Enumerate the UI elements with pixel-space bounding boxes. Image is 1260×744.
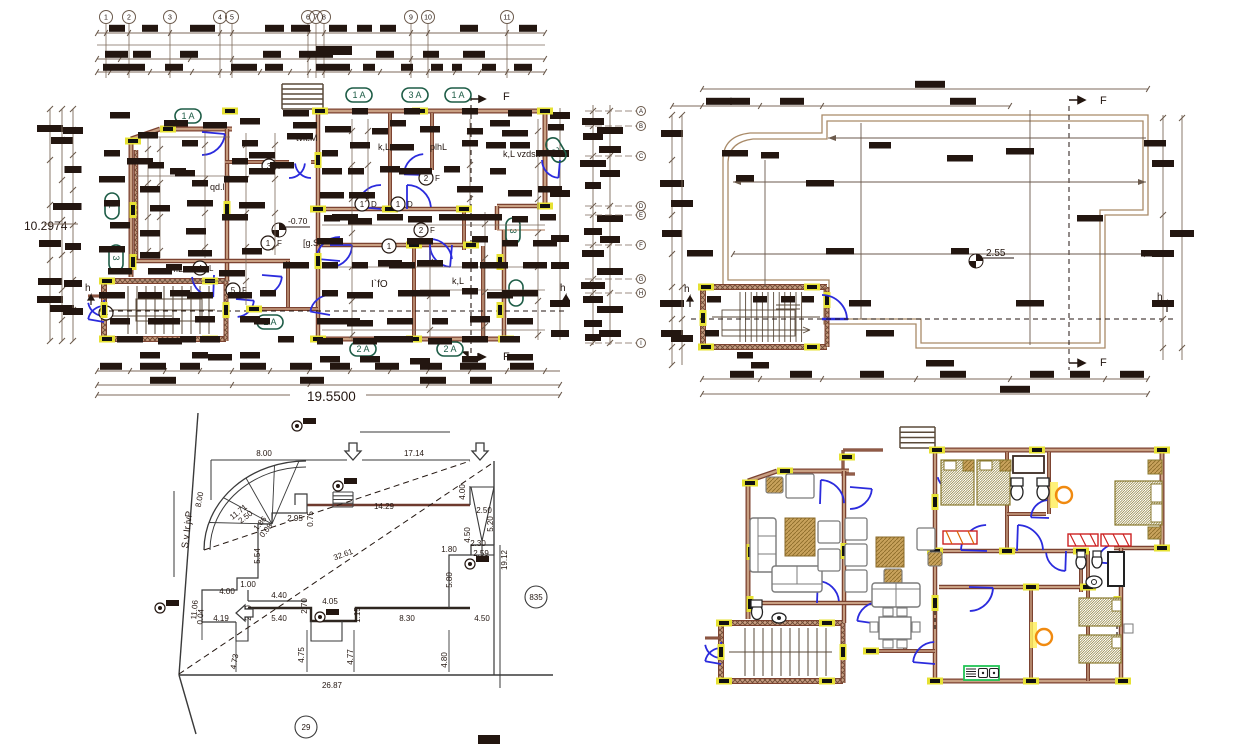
site boundary bottom (179, 674, 553, 676)
carpet centre (876, 537, 904, 567)
svg-text:835: 835 (529, 593, 543, 602)
column marker (99, 336, 115, 343)
door near stairs (236, 299, 254, 317)
column marker (412, 108, 428, 115)
column marker (1080, 584, 1096, 591)
room tag circle 1 D (355, 197, 377, 211)
top dimension chain 3 (95, 64, 547, 75)
grid line 1 (105, 24, 107, 78)
column marker (130, 254, 137, 270)
column marker (716, 678, 732, 685)
site corner fan lines (209, 461, 299, 524)
section line F-F dashed (470, 96, 472, 360)
tag 2A bottom (350, 342, 376, 356)
grid line 11 (506, 24, 508, 78)
column marker (932, 595, 939, 611)
roof top dim chain (670, 98, 1012, 109)
dashed guide line at y 311 (100, 310, 565, 312)
svg-text:5: 5 (230, 15, 234, 22)
q4 door top-centre (938, 472, 959, 492)
side table hatched (766, 477, 783, 493)
svg-text:1: 1 (396, 200, 401, 209)
svg-text:A: A (639, 109, 643, 115)
column marker (1073, 548, 1089, 555)
master bed side table bottom (1148, 527, 1161, 539)
column marker (537, 108, 553, 115)
section: roof terrace plan (top-right) (660, 81, 1194, 397)
stair arrow (112, 315, 172, 317)
hatched stool centre (884, 569, 902, 585)
svg-text:D: D (407, 200, 413, 209)
svg-text:1: 1 (266, 239, 271, 248)
grid line 7 (315, 24, 317, 78)
roof stair treads (712, 292, 820, 342)
column marker (406, 242, 422, 249)
tag 2 right (509, 280, 523, 306)
room tag circle 4 L (193, 261, 214, 275)
right exterior wall lower (502, 230, 507, 339)
bedside hatched square right of bed2 (1000, 460, 1011, 471)
svg-text:2.30: 2.30 (470, 539, 486, 548)
bottom wall right block (318, 337, 508, 342)
q4 right step wall (1114, 546, 1165, 551)
svg-text:h: h (560, 283, 566, 294)
grid bubble 11 (501, 11, 514, 24)
q4 stair top wall (721, 620, 843, 626)
column marker (999, 548, 1015, 555)
column marker (456, 206, 472, 213)
site top left vertical (210, 460, 212, 500)
svg-text:h: h (1157, 292, 1163, 303)
grid line 3 (169, 24, 171, 78)
q4 bottom wall right block (935, 679, 1125, 684)
q4 door spine lower (913, 642, 935, 664)
svg-text:D: D (371, 200, 377, 209)
roof door blue sill (822, 318, 848, 321)
grid bubble 2 (123, 11, 136, 24)
q4 entry arc 2 (705, 648, 722, 664)
q4 hall door left (961, 525, 987, 551)
q4 porch top wall (843, 448, 883, 451)
grid bubble 4 (214, 11, 227, 24)
q4 interior vertical right (1079, 548, 1083, 592)
row bubble D (637, 202, 646, 211)
interior horizontal wall mid (318, 207, 464, 212)
column marker (839, 454, 855, 461)
white gap for text (290, 387, 366, 402)
svg-text:2: 2 (419, 226, 424, 235)
q4 bathroom wall 2 (1047, 452, 1051, 514)
q4 bathroom wall vertical (1005, 452, 1009, 551)
right exterior wall upper (543, 111, 548, 206)
q4 hall door right (1017, 525, 1043, 551)
q4 spine top stub (933, 450, 938, 467)
column marker (716, 620, 732, 627)
hollow arrow down (345, 443, 361, 460)
mark L arrow (462, 352, 484, 360)
tag circle 4 entry (99, 306, 113, 320)
interior wall above stairs (254, 307, 318, 311)
door plhL room (404, 154, 425, 175)
column marker (224, 201, 231, 217)
column marker (498, 336, 514, 343)
entry door arc 2 (88, 306, 105, 322)
grid bubble 7 (310, 11, 323, 24)
svg-text:5.80: 5.80 (445, 572, 454, 588)
svg-text:26.87: 26.87 (322, 681, 343, 690)
armchair top left (786, 474, 814, 498)
row bubble B (637, 122, 646, 131)
column marker (804, 344, 820, 351)
left exterior wall (129, 139, 134, 277)
svg-text:h: h (684, 284, 690, 295)
roof dashed horizontal (691, 318, 1175, 320)
room tag circle 1 F (261, 236, 282, 250)
svg-text:H: H (639, 291, 643, 297)
tag 1A top right (445, 88, 471, 102)
roof outline inner (728, 121, 1143, 343)
svg-text:3 A: 3 A (408, 90, 421, 100)
svg-text:k,L: k,L (378, 142, 390, 152)
grid bubble 9 (405, 11, 418, 24)
utility symbol left (155, 600, 179, 613)
site boundary right 2 (499, 545, 501, 688)
central spine wall (316, 109, 321, 339)
column marker (1114, 644, 1121, 660)
svg-text:4.40: 4.40 (271, 591, 287, 600)
svg-text:2 A: 2 A (356, 344, 369, 354)
column marker (315, 152, 322, 168)
column marker (1154, 545, 1170, 552)
interior wall room plhL (430, 113, 434, 170)
column marker (315, 253, 322, 269)
column marker (927, 678, 943, 685)
column marker (310, 336, 326, 343)
site dashed diagonal long (179, 462, 494, 674)
svg-text:F: F (277, 239, 282, 248)
site dashed diagonal 1 (204, 461, 470, 550)
column marker (202, 336, 218, 343)
grid bubble 1 (100, 11, 113, 24)
tag 2A bottom right (437, 342, 463, 356)
wardrobe red hatch 2 (1101, 534, 1131, 546)
centre chair 2 (845, 544, 867, 566)
door 2F right (430, 245, 452, 267)
q4 interior vertical small (903, 603, 907, 651)
level symbol BM (272, 223, 310, 237)
column marker (700, 310, 707, 326)
svg-text:3: 3 (508, 228, 518, 233)
q4 chamfer wall (748, 471, 777, 481)
stair enclosure right wall (224, 281, 229, 341)
site corner arc inner (210, 467, 306, 550)
row bubble C (637, 152, 646, 161)
column marker (747, 544, 754, 560)
q4 left room door (817, 581, 839, 603)
roof interior dim horizontal 2 (733, 253, 1146, 255)
right dimension blob strip (550, 108, 570, 340)
door mid hall left (357, 185, 381, 209)
svg-text:2: 2 (127, 15, 131, 22)
yellow strip beside bath (1050, 482, 1058, 508)
door left of I`fO (316, 237, 340, 261)
q4 door near stairs (857, 602, 880, 624)
interior vertical wall small (286, 261, 290, 309)
roof stair left wall (700, 287, 706, 349)
svg-text:4.50: 4.50 (474, 614, 490, 623)
svg-text:4.19: 4.19 (213, 614, 229, 623)
stair ladder (333, 492, 353, 507)
grid bubble 10 (422, 11, 435, 24)
door 5 near bottom (310, 295, 330, 315)
column marker (1023, 678, 1039, 685)
svg-text:4.00: 4.00 (219, 587, 235, 596)
armchair pair 2 (818, 549, 840, 571)
roof interior dim horizontal upper (828, 137, 1146, 139)
q4 right exterior wall upper (1160, 450, 1165, 548)
stair enclosure bottom wall (104, 336, 226, 342)
site ramp V feature (471, 487, 494, 555)
svg-text:1: 1 (387, 242, 392, 251)
grid line 4 (219, 24, 221, 78)
svg-text:B: B (639, 124, 643, 130)
site detached line top (360, 431, 450, 433)
grid line 9 (410, 24, 412, 78)
site corner arc outer (204, 461, 306, 550)
interior dimension verticals (145, 119, 541, 340)
column marker (718, 644, 725, 660)
column marker (222, 108, 238, 115)
svg-text:1 A: 1 A (181, 111, 194, 121)
toilet bottom-left (751, 600, 763, 620)
q4 wall rooms lower (1029, 589, 1033, 681)
single bed 1 (hatched) (941, 460, 974, 505)
side table twin beds (1124, 624, 1133, 633)
roof stair bottom wall (703, 344, 827, 350)
door mid hall right (407, 185, 431, 209)
roof stair right wall (825, 287, 830, 347)
interior horizontal wall lower (322, 243, 470, 248)
bottom dimension chain 1 (95, 363, 560, 374)
svg-text:5.40: 5.40 (271, 614, 287, 623)
chamfer corner wall (131, 129, 160, 139)
left block interior vertical wall (225, 129, 230, 281)
site boundary diagonal left (179, 413, 198, 675)
q4 stair bottom wall (721, 678, 843, 684)
grid bubble 6 (302, 11, 315, 24)
partial blob bottom centre (478, 735, 500, 744)
door right vzdsh (542, 160, 560, 178)
tag 1 left (105, 193, 119, 219)
column marker (1023, 584, 1039, 591)
sofa pair lower centre (872, 583, 920, 607)
svg-text:F: F (1100, 95, 1107, 107)
site boundary diagonal continuation (179, 675, 196, 734)
sofa left vertical (3-seat) (750, 518, 776, 572)
washbasin oval bottom-left (772, 613, 786, 623)
door 1F room (262, 275, 282, 295)
tag 2A mid (257, 315, 283, 329)
column marker (497, 254, 504, 270)
column marker (160, 126, 176, 133)
q4 central spine wall (933, 467, 938, 681)
section: site plan (bottom-left) (155, 413, 553, 738)
roof interior dim vertical 2 (1029, 110, 1031, 345)
row bubble G (637, 275, 646, 284)
column marker (932, 494, 939, 510)
column marker (463, 242, 479, 249)
column marker (1154, 447, 1170, 454)
top dimension line 2 (97, 44, 545, 46)
roof F arrow bottom (1069, 360, 1085, 367)
q4 top wall right block (935, 448, 1165, 453)
roof bottom dim overall (700, 386, 1150, 397)
stair enclosure left wall (101, 281, 107, 341)
stair treads (112, 286, 215, 334)
bath sink counter dark rect (1013, 456, 1044, 473)
room tag circle 2 F (419, 171, 440, 185)
row bubble I (637, 339, 646, 348)
svg-text:4.00: 4.00 (458, 484, 467, 500)
column marker (310, 206, 326, 213)
room tag circle 3 F (262, 159, 283, 173)
svg-text:4.05: 4.05 (322, 597, 338, 606)
tag 1A left (175, 109, 201, 123)
interior wall 3F stub (311, 160, 318, 164)
site top edge line 8.00 (211, 459, 347, 461)
q4 stair left wall (718, 623, 724, 683)
svg-text:17.14: 17.14 (404, 449, 425, 458)
row bubble E (637, 211, 646, 220)
column marker (747, 596, 754, 612)
roof right dim chain (1152, 115, 1174, 360)
grid bubble 3 (164, 11, 177, 24)
svg-text:I`fO: I`fO (371, 278, 388, 290)
column marker (698, 284, 714, 291)
door 4lL room (192, 275, 214, 297)
utility symbol near stairs (333, 478, 357, 491)
svg-text:5.20: 5.20 (486, 516, 495, 532)
svg-text:3: 3 (168, 15, 172, 22)
left dimension chain middle (50, 106, 74, 344)
centre chair 3 (845, 570, 867, 592)
column marker (202, 278, 218, 285)
q4 left interior horizontal wall (748, 601, 907, 606)
column marker (929, 447, 945, 454)
q4 lower hall door (969, 587, 993, 611)
svg-text:0.04: 0.04 (195, 608, 205, 625)
interior wall with 3F door (225, 160, 289, 164)
svg-text:8.30: 8.30 (399, 614, 415, 623)
svg-text:2.70: 2.70 (300, 598, 309, 614)
stair ladder (282, 84, 323, 109)
site left survey line (173, 491, 175, 577)
master bed side table top (1148, 460, 1162, 474)
roof bottom dim chain (700, 371, 1150, 382)
q4 porch stub (705, 637, 721, 640)
column marker (863, 648, 879, 655)
roof outline outer (723, 115, 1148, 348)
left block interior horizontal wall (131, 259, 290, 264)
q4 left interior vertical wall (842, 471, 847, 623)
tag 1A top (346, 88, 372, 102)
stair rail mark (150, 320, 164, 324)
svg-text:1: 1 (104, 15, 108, 22)
single bed 2 (hatched) (977, 460, 1010, 505)
q4 dashed opening (934, 604, 936, 632)
section arrow top (471, 96, 485, 102)
section: ground floor plan (top-left) (24, 11, 646, 405)
door below [g.S (330, 245, 352, 267)
svg-text:10.2974: 10.2974 (24, 219, 68, 233)
column marker (1114, 596, 1121, 612)
svg-text:L: L (209, 264, 214, 273)
parcel circle 635 (525, 586, 547, 608)
entry door arc 1 (88, 300, 105, 316)
svg-text:19.5500: 19.5500 (307, 389, 356, 404)
column marker (824, 292, 831, 308)
washbasin circle mid (1086, 576, 1102, 588)
porch wall stub (88, 295, 104, 298)
column marker (406, 336, 422, 343)
column marker (819, 678, 835, 685)
grid line 8 (323, 24, 325, 78)
column marker (804, 284, 820, 291)
column marker (819, 620, 835, 627)
svg-text:5.54: 5.54 (253, 548, 262, 564)
wardrobe red centre (943, 531, 977, 544)
grid line 6 (307, 24, 309, 78)
top wall left block (160, 127, 232, 132)
top wall right block (318, 109, 548, 114)
grid bubble 5 (226, 11, 239, 24)
svg-text:2.50: 2.50 (476, 506, 492, 515)
q4 dashed opening 2 (1116, 618, 1118, 642)
interior wall room k,L (388, 113, 392, 209)
carpet left living room (785, 518, 815, 556)
svg-text:1: 1 (360, 200, 365, 209)
grid line 10 (427, 24, 429, 78)
bottom dimension chain 2 (95, 377, 562, 388)
svg-text:1 A: 1 A (451, 90, 464, 100)
site building outline steps (202, 494, 307, 622)
twin bed bottom 1 (hatched) (1079, 598, 1121, 626)
svg-text:C: C (639, 154, 644, 160)
roof interior dim vertical 1 (860, 123, 862, 319)
site building bottom step (236, 608, 342, 641)
green stove bottom (964, 666, 999, 680)
svg-text:plhL: plhL (430, 142, 447, 152)
svg-text:4.80: 4.80 (440, 652, 449, 668)
right step vertical (495, 206, 500, 230)
site building bottom edge (dark) (248, 608, 470, 621)
bedside hatched square between single beds (963, 460, 974, 471)
svg-text:14.29: 14.29 (374, 502, 395, 511)
svg-text:4.77: 4.77 (346, 649, 355, 665)
roof left dim chain (660, 112, 684, 368)
q4 top wall left block (777, 469, 849, 474)
toilet top bath 1 (1011, 478, 1023, 500)
site right small rect (471, 545, 494, 555)
svg-text:2 A: 2 A (443, 344, 456, 354)
svg-text:h: h (85, 283, 91, 294)
svg-text:1 A: 1 A (352, 90, 365, 100)
q4 wc door (1031, 500, 1049, 518)
svg-text:1.80: 1.80 (441, 545, 457, 554)
svg-text:0.75: 0.75 (306, 511, 315, 527)
column marker (130, 202, 137, 218)
roof F arrow top (1069, 97, 1085, 104)
